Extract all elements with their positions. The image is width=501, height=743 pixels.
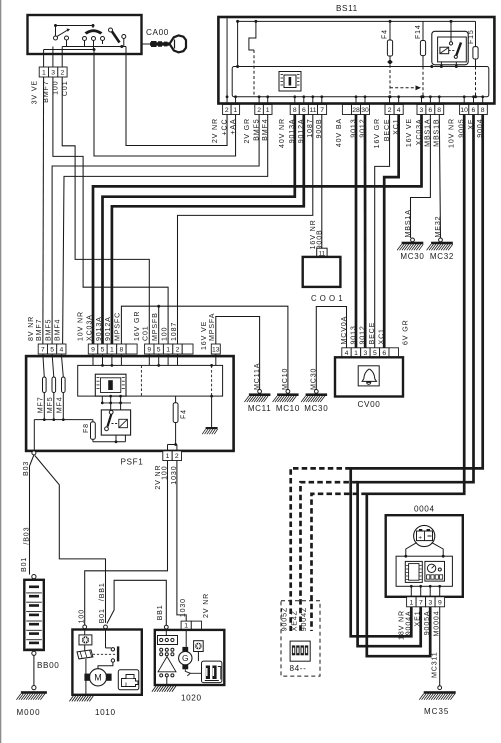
svg-text:MPSFC: MPSFC — [114, 312, 122, 341]
svg-text:CA00: CA00 — [146, 28, 169, 37]
diagnostic connector 84 dashed box — [281, 601, 320, 676]
svg-text:1: 1 — [184, 622, 188, 629]
ground MC30 upper — [397, 209, 424, 261]
fuse MF7 in PSF1 — [36, 354, 46, 420]
svg-text:2: 2 — [61, 70, 65, 77]
svg-text:40V NR: 40V NR — [278, 118, 286, 148]
svg-text:BB1: BB1 — [156, 604, 164, 620]
dashed branch wire 9004Z to connector 84 — [291, 468, 351, 631]
svg-text:BMF7: BMF7 — [35, 319, 43, 341]
svg-text:10: 10 — [460, 107, 468, 114]
starter motor 1010 — [72, 625, 141, 717]
svg-text:6: 6 — [302, 107, 306, 114]
svg-text:BS11: BS11 — [336, 4, 358, 13]
svg-text:4: 4 — [397, 107, 401, 114]
svg-text:8: 8 — [481, 107, 485, 114]
svg-text:4: 4 — [60, 347, 64, 354]
BS11 connector 16V GR pins 2 4 — [373, 105, 403, 149]
svg-text:1030: 1030 — [179, 598, 187, 617]
svg-text:8: 8 — [120, 347, 124, 354]
svg-text:2: 2 — [225, 107, 229, 114]
svg-text:9004Z: 9004Z — [300, 607, 308, 631]
PSF1 connector 8V NR pins 7 5 4 — [27, 316, 66, 354]
BS11 connector 40V BA pins 28 30 — [335, 105, 370, 148]
fuse F15 in BS11 — [468, 21, 478, 98]
ground MC10 — [273, 368, 300, 413]
svg-text:MC35: MC35 — [424, 707, 449, 716]
svg-text:100: 100 — [160, 327, 168, 341]
fuse MF4 in PSF1 — [55, 354, 65, 420]
wire BECE from BS11 to CV00 — [375, 115, 390, 348]
svg-text:9012: 9012 — [359, 325, 367, 344]
svg-text:2V GR: 2V GR — [243, 118, 251, 144]
svg-text:2: 2 — [175, 453, 179, 460]
wire 900B from BS11 to C001 — [321, 115, 323, 249]
relay icon in PSF1 plate — [95, 374, 126, 396]
wire MPSFC MPSFB to ground MC10 — [121, 305, 288, 390]
svg-text:ME32: ME32 — [434, 216, 442, 238]
svg-text:MC30: MC30 — [400, 252, 424, 261]
PSF1 connector 16V VE pin 13 — [200, 313, 220, 354]
svg-text:8V NR: 8V NR — [27, 316, 35, 341]
motor M in 1010 — [84, 669, 111, 686]
wire ME32 from BS11 to ground MC32 — [439, 115, 440, 239]
svg-text:4: 4 — [345, 350, 349, 357]
svg-text:1: 1 — [110, 347, 114, 354]
ignition switch CA00 — [28, 15, 169, 54]
svg-text:MC11A: MC11A — [253, 363, 261, 390]
ground MC35 — [419, 686, 456, 716]
switch contact S1 inside CA00 — [54, 24, 95, 47]
gauge icon right in 0004 — [425, 561, 445, 581]
wire B03 branch to starter 1010 — [35, 456, 106, 623]
svg-text:8: 8 — [293, 107, 297, 114]
svg-text:5: 5 — [157, 347, 161, 354]
svg-text:9: 9 — [147, 347, 151, 354]
wire BMF5 from BS11 to PSF1 — [52, 115, 259, 345]
svg-text:MC10: MC10 — [281, 368, 289, 390]
svg-text:BECE: BECE — [368, 322, 376, 345]
BS11 connector 2V NR pins 2 1 — [211, 105, 240, 144]
dashed branch wire XE4Z to connector 84 — [301, 482, 358, 631]
PSF1 bottom connector pins 1 2 — [154, 451, 182, 490]
svg-text:B01: B01 — [98, 608, 106, 623]
internal wiring of CA00 — [44, 45, 126, 54]
svg-text:B03: B03 — [22, 461, 30, 476]
relay icon in BS11 — [279, 72, 301, 92]
internal ground in PSF1 — [202, 395, 217, 435]
svg-text:9013A: 9013A — [95, 316, 103, 341]
ground hatch under 1020 — [152, 685, 177, 692]
svg-text:1: 1 — [410, 599, 414, 606]
PSF1 connector 16V GR pins 9 5 1 2 — [133, 311, 193, 354]
wire XC1 thick from BS11 to CV00 — [384, 115, 398, 348]
svg-text:MC10: MC10 — [276, 404, 300, 413]
svg-text:16V GR: 16V GR — [373, 118, 381, 148]
svg-text:3V VE: 3V VE — [31, 80, 39, 104]
dashed branch wire 9005Z to connector 84 — [312, 494, 367, 631]
svg-text:9005A: 9005A — [423, 611, 431, 636]
wire MCV0A from ground MC30 to CV00 — [316, 307, 346, 390]
connector C001 — [303, 219, 343, 303]
svg-text:7: 7 — [320, 107, 324, 114]
wire 1030 from PSF1 to alternator 1020 — [177, 461, 186, 622]
connector icon in 1010 — [79, 629, 92, 645]
svg-text:MC30: MC30 — [310, 368, 318, 390]
svg-text:2V NR: 2V NR — [211, 118, 219, 143]
svg-text:M: M — [94, 673, 102, 683]
wire labels at starter 1010 — [77, 582, 106, 623]
svg-text:MBS1A: MBS1A — [404, 209, 412, 237]
svg-text:BMF5: BMF5 — [45, 319, 53, 341]
svg-text:40V BA: 40V BA — [335, 118, 343, 147]
generator G in 1020 — [179, 629, 202, 676]
svg-text:5: 5 — [50, 347, 54, 354]
relay K2 in PSF1 — [101, 395, 131, 442]
ground hatch under 1010 — [69, 695, 94, 702]
BS11 pin junction dots — [226, 95, 484, 104]
svg-text:9013: 9013 — [349, 325, 357, 344]
svg-text:9012A: 9012A — [104, 316, 112, 341]
svg-text:2: 2 — [176, 347, 180, 354]
svg-text:6V GR: 6V GR — [402, 319, 410, 345]
svg-text:5: 5 — [373, 350, 377, 357]
fuse F4 in BS11 — [382, 20, 393, 98]
fuse box PSF1 — [26, 356, 234, 466]
svg-text:2: 2 — [388, 107, 392, 114]
svg-text:BMF4: BMF4 — [54, 319, 62, 341]
wire B03 from PSF1 to battery — [20, 451, 36, 575]
wire +CC from CA00 to BS11 — [126, 54, 227, 146]
svg-text:C01: C01 — [142, 325, 150, 341]
wire BMF4 from BS11 to PSF1 — [63, 115, 268, 345]
solenoid coil in 1010 — [77, 645, 93, 695]
svg-text:0004: 0004 — [414, 505, 435, 514]
battery BB00 — [24, 575, 59, 671]
svg-text:MF5: MF5 — [46, 397, 54, 414]
svg-text:MC11: MC11 — [248, 404, 272, 413]
wire C01 from CA00 to PSF1 — [62, 77, 149, 344]
svg-text:13: 13 — [212, 347, 220, 354]
svg-text:10V NR: 10V NR — [77, 311, 85, 341]
relay K1 in BS11 — [430, 20, 468, 68]
svg-text:PSF1: PSF1 — [121, 457, 144, 466]
switch contact S3 inside CA00 — [109, 28, 126, 47]
svg-text:3: 3 — [51, 70, 55, 77]
svg-text:6: 6 — [428, 107, 432, 114]
svg-text:900B: 900B — [315, 229, 323, 249]
BS11 connector 10V NR pins 10 6 8 — [448, 105, 488, 148]
wire 9005 thick from BS11 to cluster 0004 — [367, 115, 464, 657]
svg-text:1: 1 — [166, 453, 170, 460]
BS11 connector 16V VE pins 3 6 8 — [405, 105, 444, 148]
wire 100 from PSF1 to starter 1010 — [85, 461, 168, 625]
svg-text:5: 5 — [101, 347, 105, 354]
svg-text:BB00: BB00 — [37, 661, 59, 670]
svg-text:28: 28 — [352, 107, 360, 114]
svg-text:CV00: CV00 — [358, 400, 381, 409]
wire 100 from CA00 to PSF1 — [53, 77, 168, 344]
svg-text:8: 8 — [437, 107, 441, 114]
svg-text:30: 30 — [361, 107, 369, 114]
wire from battery to ground M000 — [33, 655, 35, 685]
BS11 connector 40V NR pins 8 6 11 7 — [278, 105, 327, 148]
wires from telltale to gauges in 0004 — [396, 543, 452, 587]
svg-text:MF4: MF4 — [55, 397, 63, 414]
svg-text:16V VE: 16V VE — [200, 321, 208, 350]
svg-text:XE1: XE1 — [414, 611, 422, 627]
key symbol — [142, 35, 187, 52]
svg-text:F14: F14 — [415, 24, 422, 39]
diode bridge in 1020 — [158, 629, 178, 685]
connector icon in 1020 — [194, 641, 204, 661]
wire BB1 jumper from 1010 to 1020 — [107, 580, 166, 625]
svg-text:/B03: /B03 — [22, 527, 30, 545]
svg-text:XC03A: XC03A — [85, 314, 93, 341]
svg-text:M000: M000 — [17, 708, 41, 717]
internal step wire in BS11 — [249, 20, 258, 97]
svg-text:F15: F15 — [468, 29, 475, 44]
svg-text:3: 3 — [420, 107, 424, 114]
svg-text:1: 1 — [166, 347, 170, 354]
starter drawing icon in 1010 — [118, 670, 139, 690]
wire MBS1A from BS11 to ground MC30 — [411, 115, 431, 239]
fuse F4 in PSF1 — [168, 396, 188, 451]
svg-text:MC311: MC311 — [431, 651, 439, 678]
BS11 connector 2V GR pins 2 1 — [243, 105, 272, 144]
wire 9012 thick from BS11 to CV00 — [364, 115, 367, 348]
ground MC32 — [427, 216, 454, 262]
PSF1 connector 10V NR pins 9 5 1 8 — [77, 311, 138, 354]
svg-text:G: G — [182, 653, 189, 663]
svg-text:1: 1 — [42, 70, 46, 77]
svg-text:6: 6 — [382, 350, 386, 357]
fuse F14 in BS11 — [415, 21, 426, 98]
regulator icon in 1020 — [202, 661, 222, 683]
svg-text:11: 11 — [309, 107, 316, 114]
svg-text:3: 3 — [429, 599, 433, 606]
svg-text:MC30: MC30 — [304, 404, 328, 413]
wire MPSFA to ground MC11 — [216, 317, 260, 390]
svg-text:MC32: MC32 — [430, 252, 454, 261]
svg-text:9: 9 — [91, 347, 95, 354]
wire M0004 to ground MC35 — [431, 606, 440, 686]
ground M000 — [16, 686, 47, 718]
gauge icon left in 0004 — [405, 561, 422, 582]
svg-text:9: 9 — [438, 599, 442, 606]
cluster 0004 pins 1 7 3 9 — [397, 585, 444, 640]
wire 9012A thick from BS11 to PSF1 — [112, 115, 304, 345]
connector pins 1 3 2 below CA00 — [31, 54, 70, 104]
svg-text:6: 6 — [472, 107, 476, 114]
svg-text:MPSFB: MPSFB — [151, 312, 159, 341]
svg-text:84--: 84-- — [290, 664, 307, 673]
wire 9013A thick from BS11 to PSF1 — [103, 115, 295, 345]
solenoid contact in 1010 — [93, 629, 119, 669]
svg-text:1: 1 — [266, 107, 270, 114]
buzzer CV00 — [335, 316, 410, 409]
wire 1087 from BS11 to PSF1 — [178, 115, 313, 345]
svg-text:XE4Z: XE4Z — [290, 610, 298, 631]
scan edge artifact — [0, 0, 1, 743]
wire XE thick from BS11 to cluster 0004 — [358, 115, 474, 647]
PSF1 internal bus and fuse F8 — [34, 418, 125, 451]
svg-text:16V VE: 16V VE — [405, 118, 413, 147]
svg-text:+: + — [418, 534, 422, 541]
svg-text:7: 7 — [419, 599, 423, 606]
wire +AA from CA00 to BS11 — [94, 54, 236, 156]
PSF1 internal plate — [78, 354, 223, 396]
fuse MF5 in PSF1 — [46, 354, 56, 420]
battery telltale in 0004 — [414, 525, 435, 546]
dashed link from F4 to F14 wire — [390, 85, 421, 90]
svg-text:2: 2 — [257, 107, 261, 114]
svg-text:1: 1 — [354, 350, 358, 357]
wire BMF7 from CA00 to PSF1 — [42, 77, 45, 344]
ground MC11 — [244, 363, 271, 413]
svg-text:2V NR: 2V NR — [202, 593, 210, 618]
svg-text:1010: 1010 — [95, 708, 116, 717]
svg-text:MF7: MF7 — [36, 397, 44, 414]
svg-text:MPSFA: MPSFA — [208, 313, 216, 341]
svg-text:9005Z: 9005Z — [281, 607, 289, 631]
wire 9004 thick from BS11 to cluster 0004 — [351, 115, 483, 637]
wire 9013 thick from BS11 to CV00 — [355, 115, 358, 348]
ground MC30 lower — [301, 368, 328, 413]
svg-text:7: 7 — [41, 347, 45, 354]
svg-text:1: 1 — [233, 107, 237, 114]
svg-text:3: 3 — [364, 350, 368, 357]
svg-text:F4: F4 — [180, 409, 187, 419]
svg-text:XC1: XC1 — [378, 328, 386, 344]
svg-text:100: 100 — [77, 609, 85, 623]
svg-text:B01: B01 — [20, 557, 28, 572]
svg-text:C O O 1: C O O 1 — [311, 294, 343, 303]
svg-text:1020: 1020 — [181, 694, 202, 703]
BSI unit BS11 — [218, 4, 494, 105]
svg-text:/BB1: /BB1 — [98, 582, 106, 601]
instrument cluster 0004 — [386, 505, 463, 597]
alternator 1020 — [155, 593, 225, 703]
svg-text:F8: F8 — [83, 423, 90, 433]
svg-text:1087: 1087 — [170, 322, 178, 341]
svg-text:MCV0A: MCV0A — [340, 316, 348, 345]
svg-text:16V GR: 16V GR — [133, 311, 141, 341]
wire XC03A thick from BS11 to PSF1 — [93, 115, 422, 345]
svg-text:9004A: 9004A — [404, 611, 412, 636]
svg-text:10V NR: 10V NR — [448, 118, 456, 148]
svg-text:F4: F4 — [382, 29, 389, 39]
switch contact S2 inside CA00 — [83, 26, 105, 50]
